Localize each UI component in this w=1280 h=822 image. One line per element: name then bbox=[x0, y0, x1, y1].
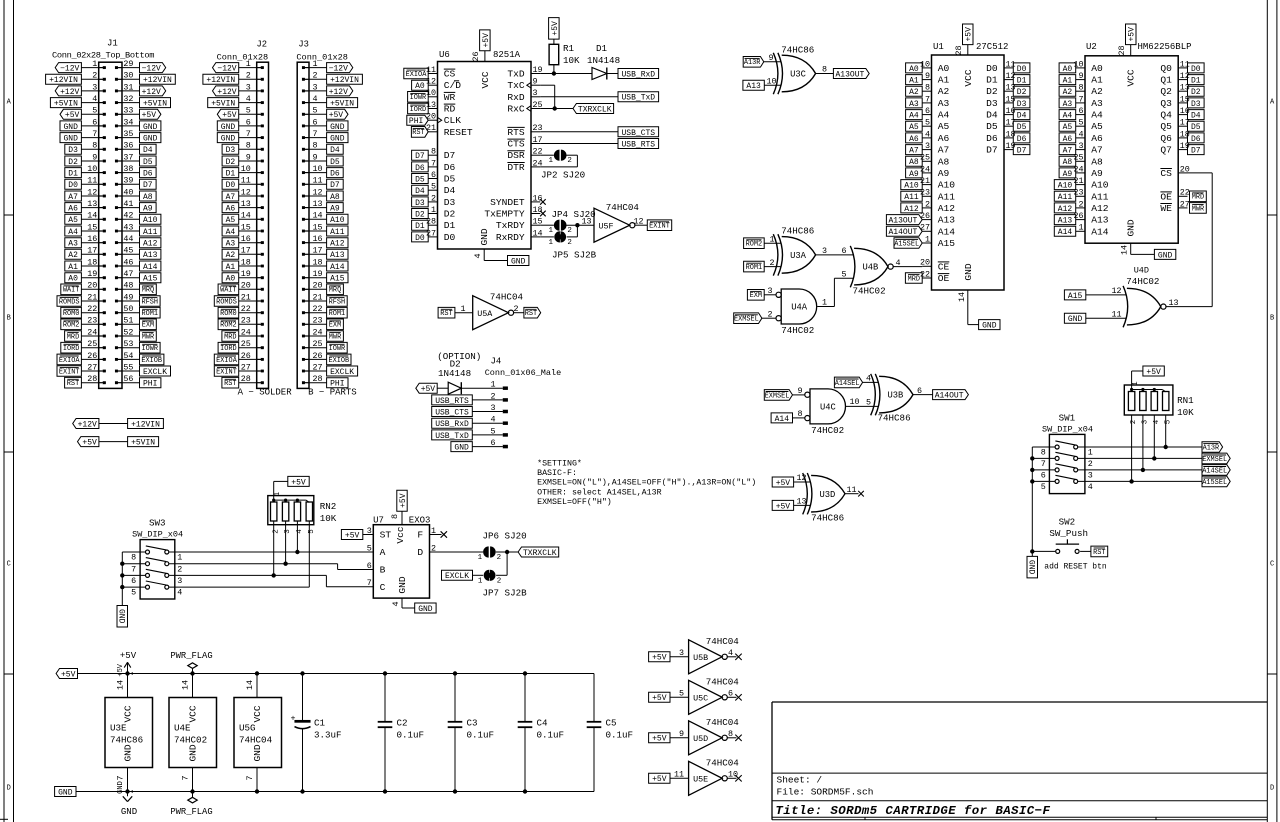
svg-text:+12V: +12V bbox=[142, 88, 161, 97]
svg-text:RN2: RN2 bbox=[320, 501, 337, 512]
svg-text:MRQ: MRQ bbox=[142, 287, 154, 295]
svg-text:19: 19 bbox=[241, 269, 251, 279]
svg-text:U3E: U3E bbox=[110, 723, 127, 734]
svg-text:74HC02: 74HC02 bbox=[174, 735, 207, 746]
svg-text:DTR: DTR bbox=[507, 162, 525, 173]
svg-text:14: 14 bbox=[313, 211, 323, 221]
svg-text:A0: A0 bbox=[415, 82, 425, 91]
svg-text:21: 21 bbox=[87, 292, 97, 302]
svg-text:A13: A13 bbox=[746, 82, 761, 91]
svg-text:11: 11 bbox=[241, 176, 251, 186]
svg-text:1: 1 bbox=[478, 577, 483, 585]
svg-text:OE: OE bbox=[938, 273, 950, 284]
svg-text:13: 13 bbox=[1180, 83, 1190, 93]
svg-text:1: 1 bbox=[490, 380, 495, 390]
svg-text:C: C bbox=[380, 582, 386, 593]
svg-text:GND: GND bbox=[1158, 251, 1173, 260]
svg-text:1: 1 bbox=[548, 239, 553, 247]
svg-text:14: 14 bbox=[87, 211, 97, 221]
svg-text:15: 15 bbox=[313, 222, 323, 232]
svg-text:4: 4 bbox=[728, 648, 733, 658]
svg-text:3.3uF: 3.3uF bbox=[314, 730, 342, 741]
svg-text:F: F bbox=[417, 530, 423, 541]
svg-text:A10: A10 bbox=[904, 182, 919, 191]
svg-text:3: 3 bbox=[177, 576, 182, 586]
svg-text:26: 26 bbox=[241, 351, 251, 361]
svg-text:IORD: IORD bbox=[220, 345, 237, 353]
svg-text:BASIC-F:: BASIC-F: bbox=[537, 469, 577, 478]
svg-text:13: 13 bbox=[313, 199, 323, 209]
svg-text:7: 7 bbox=[245, 775, 255, 780]
svg-text:Sheet: /: Sheet: / bbox=[777, 774, 823, 785]
svg-text:+5V: +5V bbox=[61, 670, 76, 679]
svg-text:27: 27 bbox=[920, 223, 930, 233]
svg-text:A14: A14 bbox=[143, 263, 158, 272]
svg-text:Q3: Q3 bbox=[1160, 98, 1172, 109]
svg-text:D: D bbox=[417, 547, 423, 558]
svg-text:CS: CS bbox=[444, 69, 456, 80]
svg-text:A5: A5 bbox=[1063, 123, 1073, 132]
svg-text:0.1uF: 0.1uF bbox=[537, 730, 565, 741]
svg-text:A12: A12 bbox=[904, 205, 919, 214]
svg-text:18: 18 bbox=[1180, 129, 1190, 139]
svg-text:1: 1 bbox=[246, 59, 251, 69]
svg-text:1: 1 bbox=[177, 553, 182, 563]
svg-text:A3: A3 bbox=[226, 240, 236, 249]
svg-text:4: 4 bbox=[925, 129, 930, 139]
svg-text:3: 3 bbox=[367, 526, 372, 536]
svg-text:2: 2 bbox=[768, 309, 773, 319]
svg-text:U5A: U5A bbox=[477, 309, 493, 319]
svg-text:VCC: VCC bbox=[123, 705, 134, 722]
svg-text:GND: GND bbox=[418, 605, 433, 614]
svg-text:10K: 10K bbox=[1177, 407, 1194, 418]
svg-text:22: 22 bbox=[241, 304, 251, 314]
svg-text:U5D: U5D bbox=[693, 734, 708, 744]
svg-text:A1: A1 bbox=[1063, 77, 1073, 86]
svg-text:16: 16 bbox=[87, 234, 97, 244]
svg-text:C4: C4 bbox=[537, 718, 549, 729]
svg-text:52: 52 bbox=[123, 327, 133, 337]
svg-text:A14: A14 bbox=[1058, 228, 1073, 237]
svg-text:18: 18 bbox=[1006, 129, 1016, 139]
svg-text:3: 3 bbox=[246, 82, 251, 92]
svg-text:21: 21 bbox=[1073, 176, 1083, 186]
svg-text:U7: U7 bbox=[373, 515, 384, 525]
svg-text:ROM2: ROM2 bbox=[746, 241, 763, 249]
svg-text:U3C: U3C bbox=[790, 70, 806, 80]
svg-text:7: 7 bbox=[1078, 94, 1083, 104]
svg-text:19: 19 bbox=[87, 269, 97, 279]
svg-text:1: 1 bbox=[822, 298, 827, 308]
svg-text:A3: A3 bbox=[1091, 98, 1103, 109]
svg-text:45: 45 bbox=[123, 246, 133, 256]
svg-text:PWR_FLAG: PWR_FLAG bbox=[170, 807, 212, 817]
svg-text:4: 4 bbox=[246, 94, 251, 104]
svg-text:2: 2 bbox=[1078, 199, 1083, 209]
svg-text:D5: D5 bbox=[330, 158, 340, 167]
svg-text:Q7: Q7 bbox=[1160, 145, 1172, 156]
svg-text:27: 27 bbox=[241, 362, 251, 372]
svg-text:D0: D0 bbox=[986, 63, 998, 74]
svg-text:D1: D1 bbox=[1017, 77, 1027, 86]
svg-text:4: 4 bbox=[1088, 482, 1093, 492]
svg-text:74HC04: 74HC04 bbox=[490, 292, 524, 303]
svg-text:EXM: EXM bbox=[142, 322, 154, 330]
svg-text:−12V: −12V bbox=[142, 65, 161, 74]
svg-text:11: 11 bbox=[847, 485, 857, 495]
svg-text:A11: A11 bbox=[904, 193, 919, 202]
svg-text:USB_TxD: USB_TxD bbox=[621, 94, 655, 103]
svg-text:7: 7 bbox=[313, 129, 318, 139]
svg-text:4: 4 bbox=[866, 374, 871, 384]
svg-text:27: 27 bbox=[313, 362, 323, 372]
svg-text:RESET: RESET bbox=[444, 127, 473, 138]
svg-text:19: 19 bbox=[1180, 141, 1190, 151]
svg-text:D2: D2 bbox=[444, 209, 456, 220]
svg-text:28: 28 bbox=[241, 374, 251, 384]
svg-text:OE: OE bbox=[1160, 191, 1172, 202]
svg-text:D7: D7 bbox=[444, 150, 456, 161]
svg-text:Q6: Q6 bbox=[1160, 133, 1172, 144]
svg-text:3: 3 bbox=[822, 246, 827, 256]
svg-text:+5V: +5V bbox=[65, 111, 80, 120]
svg-text:D4: D4 bbox=[444, 185, 456, 196]
svg-text:5: 5 bbox=[490, 426, 495, 436]
svg-text:GND: GND bbox=[121, 807, 137, 817]
svg-text:D6: D6 bbox=[415, 164, 425, 173]
svg-text:2: 2 bbox=[92, 71, 97, 81]
svg-text:21: 21 bbox=[426, 123, 436, 133]
svg-text:0.1uF: 0.1uF bbox=[397, 730, 425, 741]
svg-text:TxEMPTY: TxEMPTY bbox=[484, 209, 525, 220]
svg-text:6: 6 bbox=[925, 106, 930, 116]
svg-text:J3: J3 bbox=[298, 40, 309, 50]
svg-text:13: 13 bbox=[426, 100, 436, 110]
svg-text:12: 12 bbox=[313, 187, 323, 197]
svg-text:−12V: −12V bbox=[60, 65, 79, 74]
svg-text:24: 24 bbox=[1073, 164, 1083, 174]
svg-text:A4: A4 bbox=[938, 110, 950, 121]
svg-text:11: 11 bbox=[87, 176, 97, 186]
svg-text:+5V: +5V bbox=[652, 654, 667, 663]
svg-text:15: 15 bbox=[1180, 94, 1190, 104]
svg-text:+5VIN: +5VIN bbox=[131, 439, 155, 448]
svg-text:TxC: TxC bbox=[507, 80, 525, 91]
svg-text:A11: A11 bbox=[330, 228, 345, 237]
svg-text:14: 14 bbox=[116, 680, 126, 690]
svg-text:MRD: MRD bbox=[908, 275, 920, 283]
svg-text:C: C bbox=[1270, 561, 1274, 569]
svg-text:D1: D1 bbox=[226, 170, 236, 179]
svg-text:6: 6 bbox=[246, 117, 251, 127]
svg-text:D3: D3 bbox=[1191, 100, 1201, 109]
svg-text:6: 6 bbox=[367, 561, 372, 571]
svg-text:34: 34 bbox=[123, 117, 133, 127]
svg-text:8: 8 bbox=[313, 141, 318, 151]
svg-text:74HC86: 74HC86 bbox=[878, 413, 911, 424]
svg-text:+5V: +5V bbox=[142, 111, 157, 120]
svg-text:D2: D2 bbox=[986, 86, 998, 97]
svg-text:5: 5 bbox=[246, 106, 251, 116]
svg-text:1: 1 bbox=[1132, 381, 1140, 385]
svg-text:GND: GND bbox=[143, 135, 158, 144]
svg-text:D0: D0 bbox=[226, 181, 236, 190]
svg-text:13: 13 bbox=[1169, 298, 1179, 308]
svg-text:2: 2 bbox=[567, 239, 572, 247]
svg-text:+5VIN: +5VIN bbox=[211, 100, 235, 109]
svg-text:8: 8 bbox=[431, 147, 436, 157]
svg-text:20: 20 bbox=[241, 281, 251, 291]
svg-text:5: 5 bbox=[925, 118, 930, 128]
svg-text:6: 6 bbox=[728, 689, 733, 699]
svg-text:D7: D7 bbox=[1191, 147, 1201, 156]
svg-text:A4: A4 bbox=[68, 228, 78, 237]
svg-text:VCC: VCC bbox=[188, 705, 199, 722]
svg-text:12: 12 bbox=[1006, 71, 1016, 81]
svg-text:VCC: VCC bbox=[963, 69, 974, 86]
svg-text:+5V: +5V bbox=[399, 493, 408, 508]
svg-text:A10: A10 bbox=[143, 216, 158, 225]
svg-text:18: 18 bbox=[313, 257, 323, 267]
svg-text:A14SEL: A14SEL bbox=[1202, 467, 1227, 475]
svg-text:2: 2 bbox=[431, 543, 436, 553]
svg-text:A8: A8 bbox=[909, 158, 919, 167]
svg-text:D6: D6 bbox=[1191, 135, 1201, 144]
svg-text:+5V: +5V bbox=[776, 502, 791, 511]
svg-text:A14OUT: A14OUT bbox=[935, 392, 964, 401]
svg-text:A4: A4 bbox=[226, 228, 236, 237]
svg-text:A: A bbox=[380, 547, 386, 558]
svg-text:2: 2 bbox=[497, 577, 502, 585]
svg-text:1: 1 bbox=[313, 59, 318, 69]
svg-text:Conn_01x06_Male: Conn_01x06_Male bbox=[485, 368, 562, 378]
svg-text:JP5 SJ2B: JP5 SJ2B bbox=[552, 250, 597, 261]
svg-text:A0: A0 bbox=[226, 275, 236, 284]
svg-text:8: 8 bbox=[1041, 448, 1046, 458]
svg-text:GND: GND bbox=[1026, 560, 1035, 575]
svg-text:DSR: DSR bbox=[507, 150, 525, 161]
svg-text:11: 11 bbox=[313, 176, 323, 186]
svg-text:18: 18 bbox=[533, 205, 543, 215]
svg-text:A13OUT: A13OUT bbox=[888, 217, 917, 226]
svg-text:+5V: +5V bbox=[652, 694, 667, 703]
svg-text:74HC86: 74HC86 bbox=[781, 226, 814, 237]
svg-text:17: 17 bbox=[87, 246, 97, 256]
svg-text:3: 3 bbox=[1088, 471, 1093, 481]
svg-text:41: 41 bbox=[123, 199, 133, 209]
svg-text:74HC04: 74HC04 bbox=[706, 717, 740, 728]
svg-text:JP6 SJ20: JP6 SJ20 bbox=[483, 531, 527, 542]
svg-text:A9: A9 bbox=[909, 170, 919, 179]
svg-text:RST: RST bbox=[1093, 549, 1105, 557]
svg-text:56: 56 bbox=[123, 374, 133, 384]
svg-text:A1: A1 bbox=[1091, 75, 1103, 86]
svg-text:+5V: +5V bbox=[652, 775, 667, 784]
svg-text:9: 9 bbox=[1078, 71, 1083, 81]
svg-text:A3: A3 bbox=[1063, 100, 1073, 109]
svg-text:EXINT: EXINT bbox=[649, 223, 670, 231]
svg-text:1N4148: 1N4148 bbox=[438, 368, 471, 379]
svg-text:U2: U2 bbox=[1086, 42, 1097, 52]
svg-text:IOWR: IOWR bbox=[410, 94, 427, 102]
svg-text:A10: A10 bbox=[1058, 182, 1073, 191]
svg-text:74HC04: 74HC04 bbox=[239, 735, 273, 746]
svg-text:5: 5 bbox=[842, 270, 847, 280]
svg-text:5: 5 bbox=[431, 182, 436, 192]
svg-text:+: + bbox=[291, 714, 296, 724]
svg-text:U4D: U4D bbox=[1134, 266, 1149, 276]
svg-text:A7: A7 bbox=[909, 147, 919, 156]
svg-text:+12V: +12V bbox=[329, 88, 348, 97]
svg-text:D0: D0 bbox=[68, 181, 78, 190]
svg-text:D5: D5 bbox=[444, 174, 456, 185]
svg-text:USB_CTS: USB_CTS bbox=[621, 129, 655, 138]
svg-text:A13: A13 bbox=[1091, 215, 1109, 226]
svg-text:RST: RST bbox=[525, 310, 537, 318]
svg-text:5: 5 bbox=[92, 106, 97, 116]
svg-text:1: 1 bbox=[431, 526, 436, 536]
svg-text:GND: GND bbox=[143, 123, 158, 132]
svg-text:RN1: RN1 bbox=[1177, 395, 1194, 406]
svg-text:RST: RST bbox=[412, 129, 424, 137]
svg-text:ROMDS: ROMDS bbox=[216, 298, 237, 306]
svg-text:28: 28 bbox=[313, 374, 323, 384]
svg-text:47: 47 bbox=[123, 269, 133, 279]
svg-text:10: 10 bbox=[767, 76, 777, 86]
svg-text:GND: GND bbox=[479, 228, 490, 245]
svg-text:C: C bbox=[7, 561, 11, 569]
svg-text:Conn_01x28: Conn_01x28 bbox=[296, 53, 348, 63]
svg-text:CS: CS bbox=[1160, 168, 1172, 179]
svg-text:add RESET btn: add RESET btn bbox=[1044, 563, 1107, 572]
svg-text:49: 49 bbox=[123, 292, 133, 302]
svg-text:2: 2 bbox=[567, 227, 572, 235]
svg-text:74HC04: 74HC04 bbox=[606, 202, 640, 213]
svg-text:1: 1 bbox=[548, 227, 553, 235]
svg-text:A15SEL: A15SEL bbox=[894, 240, 919, 248]
svg-text:74HC86: 74HC86 bbox=[110, 735, 143, 746]
svg-text:A6: A6 bbox=[68, 205, 78, 214]
svg-text:D4: D4 bbox=[143, 146, 153, 155]
svg-text:A8: A8 bbox=[330, 193, 340, 202]
svg-text:46: 46 bbox=[123, 257, 133, 267]
svg-text:EXIOB: EXIOB bbox=[141, 357, 162, 365]
svg-text:A0: A0 bbox=[909, 65, 919, 74]
svg-text:D7: D7 bbox=[330, 181, 340, 190]
svg-text:C3: C3 bbox=[467, 718, 478, 729]
svg-text:4: 4 bbox=[177, 588, 182, 598]
svg-text:A15: A15 bbox=[1068, 292, 1083, 301]
svg-text:J4: J4 bbox=[491, 356, 502, 366]
svg-text:A5: A5 bbox=[68, 216, 78, 225]
svg-text:MRQ: MRQ bbox=[329, 287, 341, 295]
svg-text:D: D bbox=[7, 785, 11, 793]
svg-text:9: 9 bbox=[769, 53, 774, 63]
svg-text:9: 9 bbox=[92, 152, 97, 162]
svg-text:6: 6 bbox=[313, 117, 318, 127]
svg-text:ROM2: ROM2 bbox=[63, 322, 80, 330]
svg-text:PHI: PHI bbox=[143, 380, 157, 389]
svg-text:GND: GND bbox=[116, 609, 125, 624]
svg-text:22: 22 bbox=[1180, 188, 1190, 198]
svg-text:1N4148: 1N4148 bbox=[587, 55, 620, 66]
svg-text:4: 4 bbox=[313, 94, 318, 104]
svg-text:74HC02: 74HC02 bbox=[1126, 276, 1159, 287]
svg-text:8: 8 bbox=[390, 514, 400, 519]
svg-text:ROM2: ROM2 bbox=[220, 322, 237, 330]
svg-text:23: 23 bbox=[87, 316, 97, 326]
svg-text:WR: WR bbox=[444, 92, 456, 103]
svg-text:A1: A1 bbox=[226, 263, 236, 272]
svg-text:SW_Push: SW_Push bbox=[1049, 528, 1088, 539]
svg-text:EXMSEL=OFF("H"): EXMSEL=OFF("H") bbox=[537, 497, 612, 507]
svg-text:USB_RTS: USB_RTS bbox=[621, 140, 655, 149]
svg-text:16: 16 bbox=[241, 234, 251, 244]
svg-text:7: 7 bbox=[367, 578, 372, 588]
svg-text:U5G: U5G bbox=[239, 723, 256, 734]
svg-text:GND: GND bbox=[454, 443, 469, 452]
svg-text:1: 1 bbox=[548, 157, 553, 165]
svg-text:32: 32 bbox=[123, 94, 133, 104]
svg-text:A4: A4 bbox=[909, 112, 919, 121]
svg-text:+12VIN: +12VIN bbox=[131, 420, 160, 429]
svg-text:16: 16 bbox=[1006, 106, 1016, 116]
svg-text:11: 11 bbox=[426, 65, 436, 75]
svg-text:0.1uF: 0.1uF bbox=[467, 730, 495, 741]
svg-text:6: 6 bbox=[92, 117, 97, 127]
svg-text:A1: A1 bbox=[938, 75, 950, 86]
svg-text:A0: A0 bbox=[1091, 63, 1103, 74]
svg-text:D5: D5 bbox=[986, 121, 998, 132]
svg-text:A7: A7 bbox=[1091, 145, 1103, 156]
svg-text:10K: 10K bbox=[320, 513, 337, 524]
svg-text:A9: A9 bbox=[1063, 170, 1073, 179]
svg-text:A6: A6 bbox=[1091, 133, 1103, 144]
svg-text:TXRXCLK: TXRXCLK bbox=[578, 105, 612, 114]
svg-text:D: D bbox=[1270, 785, 1274, 793]
svg-text:21: 21 bbox=[313, 292, 323, 302]
svg-text:U6: U6 bbox=[439, 50, 450, 60]
svg-text:A8: A8 bbox=[1063, 158, 1073, 167]
svg-text:RxD: RxD bbox=[507, 92, 525, 103]
svg-text:A5: A5 bbox=[909, 123, 919, 132]
svg-text:33: 33 bbox=[123, 106, 133, 116]
svg-text:A3: A3 bbox=[909, 100, 919, 109]
svg-text:7: 7 bbox=[116, 775, 126, 780]
svg-text:35: 35 bbox=[123, 129, 133, 139]
svg-text:A9: A9 bbox=[1091, 168, 1103, 179]
svg-text:28: 28 bbox=[1117, 45, 1127, 55]
svg-text:74HC86: 74HC86 bbox=[781, 45, 814, 56]
svg-text:2: 2 bbox=[177, 564, 182, 574]
svg-text:A11: A11 bbox=[938, 191, 956, 202]
svg-text:A2: A2 bbox=[909, 88, 919, 97]
svg-text:D5: D5 bbox=[1017, 123, 1027, 132]
svg-text:J1: J1 bbox=[107, 39, 118, 49]
svg-text:D6: D6 bbox=[143, 170, 153, 179]
svg-text:74HC04: 74HC04 bbox=[706, 636, 740, 647]
svg-text:6: 6 bbox=[1041, 471, 1046, 481]
svg-text:Conn_02x28_Top_Bottom: Conn_02x28_Top_Bottom bbox=[52, 51, 154, 61]
svg-text:TxD: TxD bbox=[507, 69, 525, 80]
svg-text:23: 23 bbox=[1073, 188, 1083, 198]
svg-text:EXM: EXM bbox=[329, 322, 341, 330]
svg-text:25: 25 bbox=[1073, 153, 1083, 163]
svg-text:USB_RTS: USB_RTS bbox=[435, 397, 469, 406]
svg-text:D3: D3 bbox=[444, 197, 456, 208]
svg-text:+12VIN: +12VIN bbox=[330, 76, 359, 85]
